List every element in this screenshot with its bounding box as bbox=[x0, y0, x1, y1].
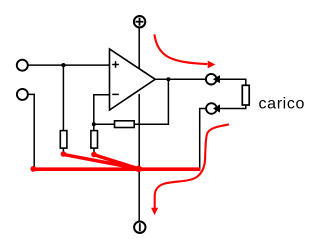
wire load resistor to OUT2 bbox=[220, 105, 246, 109]
current return arrow load to V- (red s-curve) bbox=[151, 124, 229, 215]
svg-text:carico: carico bbox=[259, 96, 306, 113]
red dot R2 bottom bbox=[91, 152, 97, 158]
red wire R2 bottom to ground junction bbox=[94, 155, 139, 169]
wire feedback resistor to output node bbox=[134, 79, 168, 124]
wire op-amp output bbox=[155, 78, 206, 80]
input terminal IN1 bbox=[17, 60, 28, 71]
red dot R1 bottom bbox=[61, 151, 67, 157]
red junction dot center bbox=[135, 166, 142, 173]
output terminal OUT1 bbox=[206, 74, 220, 85]
wire IN1 to op-amp noninverting input bbox=[28, 64, 110, 66]
wire R1 bottom stub bbox=[62, 148, 64, 153]
wire inverting input to summing node bbox=[94, 95, 110, 131]
wire V- rail (op-amp bottom to terminal) bbox=[138, 94, 140, 222]
ground rail red highlight bbox=[32, 167, 201, 171]
node junction on noninverting input bbox=[61, 63, 65, 67]
wire OUT2 down to ground rail bbox=[200, 109, 207, 171]
wire R2 bottom stub bbox=[93, 148, 95, 153]
output terminal OUT2 bbox=[206, 103, 220, 114]
negative supply terminal bbox=[134, 222, 145, 233]
wire V+ rail (terminal to op-amp top) bbox=[138, 27, 140, 69]
red wire R1 bottom to ground junction bbox=[64, 154, 139, 168]
wire summing node to feedback resistor bbox=[94, 123, 115, 125]
node output junction bbox=[166, 77, 170, 81]
resistor R2 bbox=[91, 131, 98, 149]
current arrow V+ to output (red arc) bbox=[154, 34, 215, 68]
red junction dot left bbox=[30, 166, 36, 172]
resistor RL carico bbox=[242, 85, 249, 105]
op-amp U1 bbox=[110, 49, 156, 110]
wire IN2 down to ground rail bbox=[28, 94, 34, 167]
wire OUT1 to load resistor bbox=[219, 79, 245, 85]
wire junction down to R1 bbox=[62, 65, 64, 131]
resistor R3 feedback bbox=[115, 121, 135, 128]
input terminal IN2 bbox=[17, 89, 28, 100]
node inverting summing node bbox=[92, 122, 96, 126]
positive supply terminal bbox=[134, 16, 145, 27]
resistor R1 bbox=[60, 131, 67, 149]
